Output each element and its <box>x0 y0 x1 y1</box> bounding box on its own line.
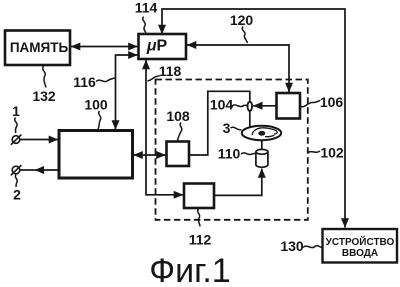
svg-text:114: 114 <box>135 0 158 16</box>
svg-text:ВВОДА: ВВОДА <box>342 248 378 259</box>
svg-text:μP: μP <box>146 38 168 55</box>
svg-text:130: 130 <box>280 238 304 254</box>
svg-text:116: 116 <box>73 74 96 90</box>
svg-text:1: 1 <box>12 103 20 119</box>
svg-text:108: 108 <box>166 108 190 124</box>
svg-text:Фиг.1: Фиг.1 <box>149 252 230 287</box>
svg-text:УСТРОЙСТВО: УСТРОЙСТВО <box>326 235 395 248</box>
svg-text:112: 112 <box>189 232 212 248</box>
svg-text:118: 118 <box>159 63 182 79</box>
svg-text:104: 104 <box>210 97 234 113</box>
svg-text:102: 102 <box>320 145 344 161</box>
svg-text:2: 2 <box>13 187 21 203</box>
svg-text:3: 3 <box>223 120 231 136</box>
svg-text:106: 106 <box>320 94 344 110</box>
svg-text:120: 120 <box>230 12 254 28</box>
svg-text:ПАМЯТЬ: ПАМЯТЬ <box>10 40 69 55</box>
svg-text:110: 110 <box>218 146 241 162</box>
svg-text:100: 100 <box>84 97 108 113</box>
svg-text:132: 132 <box>32 88 56 104</box>
